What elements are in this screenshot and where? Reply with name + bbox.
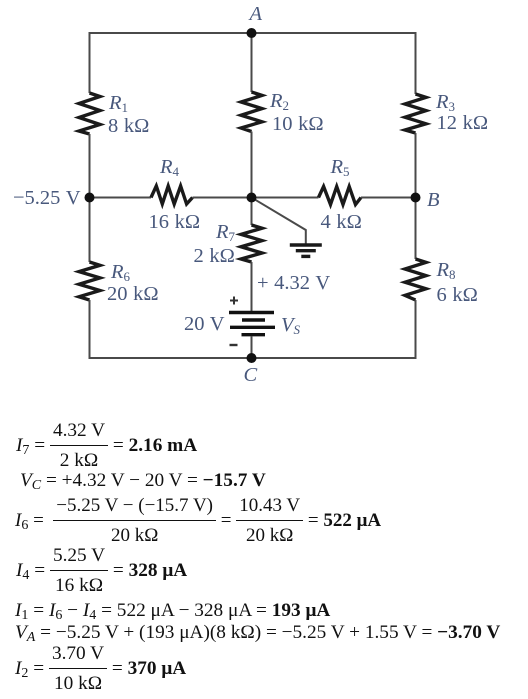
label 8 kOhm <box>108 115 149 138</box>
resistor R6 <box>79 262 100 300</box>
node A dot <box>247 28 257 38</box>
resistor R7 <box>241 225 262 262</box>
equation I4 <box>16 541 187 601</box>
wire middle vertical upper <box>251 32 253 92</box>
battery plus sign <box>230 297 238 305</box>
label 4 kOhm <box>321 211 362 234</box>
wire center node to R7 <box>251 198 253 226</box>
label 10 kOhm <box>272 113 324 136</box>
label 12 kOhm <box>437 112 489 135</box>
node B label <box>427 189 440 212</box>
label R3 <box>436 91 455 114</box>
label R4 <box>160 156 179 179</box>
label 6 kOhm <box>437 284 478 307</box>
label +4.32 V <box>257 272 330 295</box>
wire left vertical upper <box>89 32 91 93</box>
wire left vertical lower <box>89 300 91 359</box>
wire slanted to ground <box>252 198 306 244</box>
resistor R8 <box>405 259 426 300</box>
node C label <box>244 364 258 387</box>
wire middle horizontal center segment <box>193 197 319 199</box>
label R7 <box>216 221 235 244</box>
wire right vertical lower <box>415 300 417 359</box>
label 2 kOhm <box>194 245 235 268</box>
equation VC <box>20 471 266 491</box>
wire middle horizontal right segment <box>361 197 416 199</box>
node center dot <box>247 193 257 203</box>
resistor R5 <box>319 187 362 205</box>
label -5.25 V <box>13 187 81 210</box>
wire battery to node C <box>251 336 253 358</box>
label R5 <box>331 156 350 179</box>
equation I7 <box>16 416 197 476</box>
label R1 <box>109 92 128 115</box>
label 20 kOhm <box>107 283 159 306</box>
circuit schematic <box>0 0 528 400</box>
label R8 <box>437 259 456 282</box>
node A label <box>250 3 263 26</box>
battery minus sign <box>230 344 238 346</box>
equation I2 <box>15 639 186 699</box>
ground bar 2 <box>296 249 316 252</box>
ground bar 1 <box>290 243 322 246</box>
label VS <box>281 314 300 337</box>
wire left vertical middle <box>89 134 91 262</box>
battery VS long plate 1 <box>229 311 274 314</box>
node C dot <box>247 353 257 363</box>
label R6 <box>111 261 130 284</box>
wire middle vertical to center node <box>251 132 253 199</box>
resistor R1 <box>79 93 100 134</box>
wire middle horizontal left segment <box>90 197 152 199</box>
equation VA <box>15 623 500 643</box>
wire R7 to battery <box>251 262 253 311</box>
resistor R2 <box>241 92 262 132</box>
battery VS short plate 2 <box>242 333 266 336</box>
wire right vertical upper <box>415 32 417 94</box>
resistor R4 <box>151 186 193 204</box>
equation I6 <box>15 491 381 551</box>
wire top horizontal A row <box>90 32 416 34</box>
node B dot <box>411 193 421 203</box>
label R2 <box>270 90 289 113</box>
equation I1 <box>15 601 330 621</box>
battery VS long plate 2 <box>230 326 275 329</box>
wire bottom horizontal <box>90 357 416 359</box>
resistor R3 <box>405 94 426 133</box>
node -5.25V dot <box>85 193 95 203</box>
label 20 V <box>184 313 225 336</box>
label 16 kOhm <box>149 211 201 234</box>
battery VS short plate 1 <box>242 318 265 321</box>
wire right vertical middle <box>415 133 417 259</box>
ground bar 3 <box>301 255 310 258</box>
